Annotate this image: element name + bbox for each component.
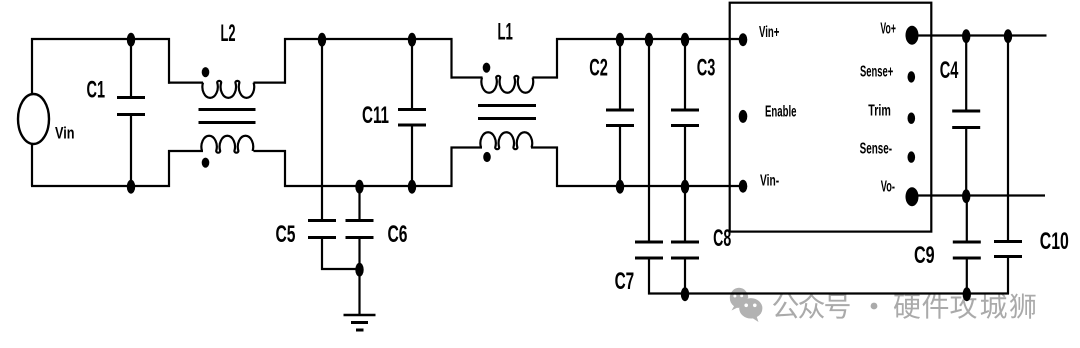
op-amp module U1 (DC-DC converter block): [730, 3, 932, 232]
inductor L1 core: [478, 104, 536, 107]
inductor L2 core: [199, 108, 256, 111]
svg-text:C8: C8: [713, 225, 731, 252]
source Vin: [18, 94, 49, 144]
pin Sense-: [908, 151, 916, 162]
svg-text:Sense+: Sense+: [860, 64, 893, 81]
wire step-up left of L2 bottom: [168, 150, 170, 187]
pin Vo+: [906, 26, 919, 45]
wire C7 lower: [648, 260, 650, 295]
wire riser L1 top: [556, 38, 558, 79]
wire C7 branch vertical: [648, 39, 650, 241]
wire L1 bottom out: [531, 146, 558, 148]
ground: [344, 314, 376, 317]
svg-text:Trim: Trim: [868, 102, 891, 119]
wire C5 lower: [321, 239, 323, 270]
inductor L1 bottom winding: [480, 132, 532, 149]
wire C10 branch vertical: [1007, 36, 1009, 241]
node Vo+ rail / C10: [1004, 29, 1012, 43]
pin Sense+: [908, 71, 916, 82]
svg-text:L2: L2: [221, 20, 236, 47]
node C9 / bottom rail: [963, 287, 971, 301]
wire L2 bottom out: [254, 150, 287, 152]
svg-text:Vin-: Vin-: [760, 173, 779, 190]
svg-text:C1: C1: [87, 77, 106, 104]
node C8 / bottom rail: [681, 287, 689, 301]
node bottom rail / C6: [355, 180, 363, 194]
wire C3 lower: [684, 127, 686, 186]
wire L2 top out: [254, 81, 287, 83]
svg-text:C3: C3: [697, 55, 716, 82]
svg-text:Sense-: Sense-: [860, 141, 893, 158]
node C1 bottom junction: [127, 180, 135, 194]
svg-text:C11: C11: [362, 102, 389, 129]
svg-text:Vo+: Vo+: [880, 20, 896, 37]
wire into L2 top: [168, 81, 203, 83]
node bottom rail / C3: [681, 180, 689, 194]
pin Enable: [739, 110, 748, 123]
wire ground stem: [358, 269, 360, 315]
svg-text:Vin+: Vin+: [759, 24, 779, 41]
wire C11 lower: [411, 127, 413, 187]
wire C4 lower: [965, 129, 967, 196]
node bottom rail / C11: [408, 180, 416, 194]
svg-text:C7: C7: [615, 268, 635, 295]
node C5/C6 join: [355, 263, 363, 277]
node top rail / C2: [616, 33, 624, 47]
wire step-up left of L1 bottom: [450, 147, 452, 188]
wire C2 lower: [619, 127, 621, 186]
wire C1 lower: [130, 116, 132, 186]
wire C11 upper: [411, 39, 413, 108]
svg-text:C4: C4: [940, 57, 959, 84]
pin Vo-: [906, 187, 919, 206]
wire left-top vertical: [31, 38, 33, 95]
wire C5-C6 bottom connector: [321, 268, 361, 270]
inductor L2 bottom winding: [201, 136, 253, 153]
wire riser L2 bottom: [284, 150, 286, 187]
svg-text:C5: C5: [276, 221, 296, 248]
svg-text:C2: C2: [589, 55, 608, 82]
node top rail / C5 branch: [318, 33, 326, 47]
wire step-down left of L2: [168, 38, 170, 84]
polarity dot L1 top: [483, 63, 491, 73]
polarity dot L1 bottom: [483, 152, 491, 162]
node C1 top junction: [127, 33, 135, 47]
wire C5 branch vertical: [321, 39, 323, 219]
svg-text:L1: L1: [498, 19, 513, 46]
wire riser L2 top: [284, 38, 286, 84]
svg-text:C6: C6: [388, 221, 408, 248]
wire top rail middle: [284, 38, 453, 40]
svg-text:C9: C9: [914, 242, 935, 269]
svg-text:Enable: Enable: [765, 103, 797, 120]
wire C8 upper: [684, 186, 686, 241]
svg-text:Vin: Vin: [55, 125, 75, 143]
wire C1 upper: [130, 39, 132, 96]
polarity dot L2 bottom: [202, 158, 210, 168]
wire L1 top out: [533, 76, 559, 78]
svg-text:Vo-: Vo-: [881, 179, 895, 196]
node top rail / C7 branch: [645, 33, 653, 47]
pin Vin-: [739, 180, 748, 193]
wire C6 upper: [358, 186, 360, 219]
watermark wechat icon: [730, 288, 763, 322]
node Vo- rail / C4: [962, 189, 970, 203]
wire riser L1 bottom: [556, 147, 558, 188]
wire C9 upper: [966, 196, 968, 241]
node Vo+ rail / C4: [962, 29, 970, 43]
inductor L2 top winding: [202, 81, 254, 98]
node top rail / C3: [681, 33, 689, 47]
node bottom rail / C2: [616, 180, 624, 194]
wire top rail left: [31, 38, 170, 40]
wire into L2 bottom: [168, 150, 203, 152]
polarity dot L2 top: [202, 67, 210, 77]
watermark text 公众号·硬件攻城狮: [773, 293, 1036, 319]
wire into L1 top: [451, 76, 483, 78]
inductor L1 top winding: [481, 76, 533, 93]
pin Trim: [908, 113, 916, 124]
wire Vo+ rail: [912, 34, 1047, 36]
wire Vo- rail: [912, 194, 1045, 196]
wire into L1 bottom: [451, 146, 483, 148]
wire C2 upper: [619, 39, 621, 109]
wire C6 lower: [358, 239, 360, 270]
node top rail / C11: [408, 33, 416, 47]
wire bottom rail middle: [284, 185, 453, 187]
wire C9 lower: [966, 260, 968, 295]
wire C3 upper: [684, 39, 686, 109]
wire C4 upper: [965, 36, 967, 110]
pin Vin+: [739, 33, 748, 46]
wire left-bottom vertical: [31, 144, 33, 186]
wire C8 lower: [684, 260, 686, 295]
wire top rail right: [556, 38, 743, 40]
wire bottom output rail: [648, 292, 1009, 294]
svg-text:C10: C10: [1040, 228, 1069, 255]
wire step-down left of L1: [450, 38, 452, 79]
wire bottom rail right: [556, 185, 743, 187]
wire bottom rail left: [31, 185, 170, 187]
wire C10 lower: [1007, 258, 1009, 294]
